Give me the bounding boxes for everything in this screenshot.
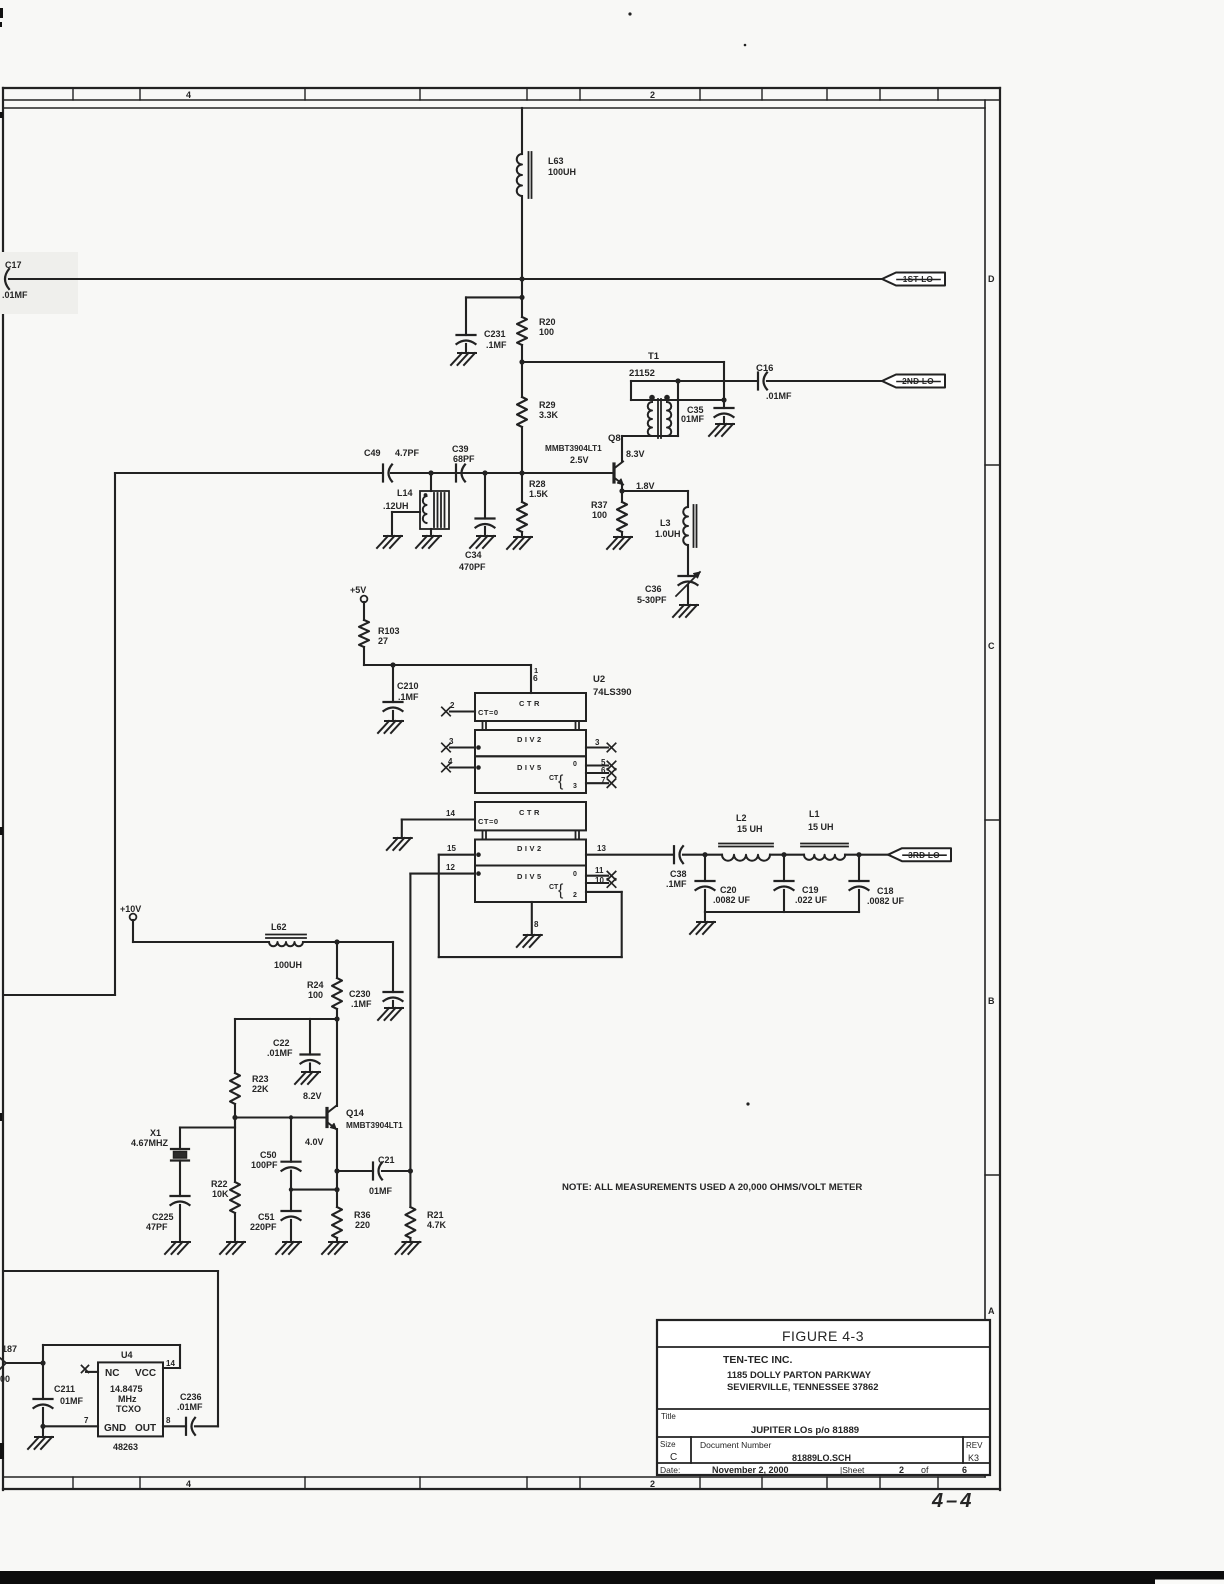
wire L14 to ground [430,529,432,536]
border bottom zone number 4 [186,1479,191,1489]
label C16 [756,363,792,401]
svg-text:C19: C19 [802,885,819,895]
label C21 [369,1155,395,1196]
wire C17 row to R20 [521,279,523,317]
svg-text:C51: C51 [258,1212,275,1222]
junction T1 secondary top [675,378,680,383]
scan speck 1 [628,12,631,15]
label Q8 part [545,444,602,453]
svg-text:K3: K3 [968,1453,979,1463]
wire R23 to base node [234,1104,236,1118]
svg-text:.12UH: .12UH [383,501,409,511]
U2 counter A pin 7 output [586,776,616,787]
svg-text:47PF: 47PF [146,1222,168,1232]
label C39 [452,444,475,464]
U2 counter B pin 9 feedback wire [439,855,622,957]
svg-text:6: 6 [601,766,606,775]
U2 counter B pin 15 clock [439,844,481,857]
wire filter ground bus [705,890,859,912]
svg-text:C210: C210 [397,681,419,691]
svg-text:R36: R36 [354,1210,371,1220]
svg-text:C22: C22 [273,1038,290,1048]
svg-text:100: 100 [592,510,607,520]
U2 counter B CTR box [475,802,586,830]
label R37 [591,500,608,520]
capacitor C21 [373,1163,382,1180]
border right zone letter B [988,996,995,1006]
wire C16 to 2ND LO [767,380,882,382]
wire C231 tap [466,297,522,335]
svg-text:+10V: +10V [120,904,141,914]
svg-text:13: 13 [597,844,606,853]
U2 counter B DIV2 box [475,840,586,866]
svg-text:Size: Size [660,1440,676,1449]
svg-text:.01MF: .01MF [267,1048,293,1058]
border bottom zone ticks [73,1477,938,1489]
label C18 [867,886,905,906]
svg-text:Date:: Date: [660,1465,680,1475]
inductor L1 [784,844,859,860]
svg-text:November 2, 2000: November 2, 2000 [712,1465,789,1475]
svg-text:R22: R22 [211,1179,228,1189]
wire C210 to ground [392,711,394,721]
junction C50 tap [289,1115,293,1119]
wire base row Q14 [235,1116,327,1118]
svg-text:L14: L14 [397,488,413,498]
svg-text:JUPITER LOs p/o 81889: JUPITER LOs p/o 81889 [751,1425,859,1436]
svg-text:L1: L1 [809,809,820,819]
wire C51 node to emitter [291,1189,337,1191]
wire VCC row [364,665,531,693]
svg-text:DIV5: DIV5 [517,872,544,881]
svg-text:C231: C231 [484,329,506,339]
inductor L63 [517,152,532,198]
svg-text:220: 220 [355,1220,370,1230]
off-page connector 3RD LO [888,848,951,861]
svg-text:100: 100 [539,327,554,337]
label C225 [146,1212,174,1232]
svg-text:L62: L62 [271,922,287,932]
wire left loop exit [4,994,115,996]
U2 counter A tabs [483,721,580,730]
label C35 [681,405,705,424]
scan speck 2 [744,44,747,47]
junction 1ST LO row / main column [519,276,524,281]
svg-text:U4: U4 [121,1350,133,1360]
junction C50/C51 node [289,1187,293,1191]
U2 counter A pin 3 output [586,738,616,752]
junction L62/R24 node [334,939,339,944]
svg-text:MMBT3904LT1: MMBT3904LT1 [346,1121,403,1130]
ground U4 [28,1437,53,1449]
svg-text:22K: 22K [252,1084,269,1094]
svg-text:3: 3 [449,737,454,746]
svg-text:.0082 UF: .0082 UF [867,896,905,906]
off-page connector 2ND LO [882,375,945,388]
resistor R29 [517,362,527,427]
title block company [723,1354,792,1366]
svg-text:.1MF: .1MF [398,692,419,702]
wire C51 to ground [290,1220,292,1242]
power +10V [120,904,141,920]
svg-text:Document Number: Document Number [700,1440,772,1450]
junction emitter/C21 node [334,1168,339,1173]
ground R37 [607,537,632,549]
inductor L3 [683,505,696,547]
svg-text:1185 DOLLY PARTON PARKWAY: 1185 DOLLY PARTON PARKWAY [727,1369,872,1380]
transistor Q14 [327,1106,336,1129]
junction T1/C35 node [721,397,726,402]
wire C50 to C51 node [290,1171,292,1190]
wire R29 to base row [521,427,523,473]
resistor R22 [230,1118,240,1214]
wire T1 feed row [522,362,724,400]
svg-text:12: 12 [446,863,455,872]
U2 counter A DIV2 box [475,730,586,756]
label C50 [251,1150,278,1170]
label U4 pin 7 [84,1416,89,1425]
U2 counter A DIV5 box [475,756,586,793]
svg-text:6: 6 [962,1465,967,1475]
label C20 [713,885,751,905]
wire R22 to ground [234,1213,236,1242]
wire C22 to ground [309,1064,311,1073]
U2 counter B pin 11 output [586,866,616,880]
capacitor C22 [301,1019,320,1064]
border right zone ticks [985,465,1000,1175]
label C22 [267,1038,293,1058]
border right zone letter D [988,274,995,284]
label Q14 part [346,1121,403,1130]
junction emitter/C51 row [334,1187,339,1192]
capacitor C34 [476,473,495,528]
wire pin 14 to ground [401,820,403,839]
wire R103 to VCC row [363,647,365,665]
junction C34 tap [482,470,487,475]
crystal X1 [171,1149,189,1161]
bottom scan bar [0,1571,1224,1584]
svg-text:C21: C21 [378,1155,395,1165]
label L63 value [548,156,576,177]
wire L3 to C36 [687,545,689,576]
svg-text:8: 8 [166,1416,171,1425]
svg-text:2: 2 [899,1465,904,1475]
svg-text:R29: R29 [539,400,556,410]
U2 counter A CT bracket [549,761,577,790]
svg-text:4.7PF: 4.7PF [395,448,420,458]
wire C35 to ground [723,417,725,424]
label R29 [539,400,559,420]
wire Q14 emitter column [336,1129,338,1207]
title block row lines [657,1347,990,1463]
wire +5V to R103 [363,602,365,620]
ground C230 [378,1008,403,1020]
svg-text:R21: R21 [427,1210,444,1220]
left edge scan marks [0,8,4,1459]
U2 counter B pin 8 [532,902,539,933]
svg-text:Q14: Q14 [346,1108,365,1119]
label Q8 [608,433,621,444]
IC U4 TCXO box [98,1350,163,1436]
capacitor C236 [186,1418,195,1435]
ground C51 [276,1242,301,1254]
svg-text:1.0UH: 1.0UH [655,529,681,539]
wire Q14 collector [336,1019,338,1106]
capacitor C39 [456,465,465,482]
wire R24 to collector node [336,1009,338,1019]
svg-text:220PF: 220PF [250,1222,277,1232]
ground U2 pin 8 [517,935,542,947]
ground C22 [295,1072,320,1084]
svg-text:C: C [670,1452,677,1463]
label L1 [808,809,834,832]
junction C20 node [702,852,707,857]
off-page connector 1ST LO [882,273,945,286]
svg-text:C211: C211 [54,1384,75,1394]
svg-text:R28: R28 [529,479,546,489]
label R22 [211,1179,229,1199]
svg-text:.01MF: .01MF [2,290,28,300]
title block title text [751,1425,859,1436]
ground C34 [470,536,495,548]
ground R28 [507,537,532,549]
wire VCC loop [43,1345,180,1368]
svg-text:MHz: MHz [118,1394,137,1404]
svg-text:C49: C49 [364,448,381,458]
label R24 [307,980,324,1000]
wire main column top [521,108,523,154]
resistor R103 [359,620,369,647]
transistor Q8 [614,462,623,485]
label T1 part number [629,368,655,379]
wire R28 to ground [521,532,523,537]
resistor R20 [517,317,527,345]
title block date row [660,1465,967,1475]
power +5V [350,585,367,602]
svg-text:1.5K: 1.5K [529,489,549,499]
svg-text:2: 2 [650,1479,655,1489]
junction C211 node [40,1360,45,1365]
capacitor C50 [282,1162,301,1171]
svg-text:MMBT3904LT1: MMBT3904LT1 [545,444,602,453]
svg-text:|Sheet: |Sheet [840,1465,865,1475]
junction collector node [334,1016,339,1021]
svg-text:R103: R103 [378,626,400,636]
capacitor C210 [384,665,403,711]
capacitor C38 [674,846,683,863]
svg-text:X1: X1 [150,1128,161,1138]
inductor L62 [266,935,337,947]
svg-text:15 UH: 15 UH [737,824,763,834]
svg-text:3: 3 [573,783,577,790]
svg-text:Title: Title [661,1412,676,1421]
U2 counter A pin 2 [442,701,475,716]
svg-text:C225: C225 [152,1212,174,1222]
label U4 part 48263 [113,1442,138,1452]
svg-text:4: 4 [186,90,191,100]
wire left loop vertical [114,473,116,995]
junction R20/R29/T1 feed [519,359,524,364]
border right zone letter A [988,1306,995,1316]
svg-text:SEVIERVILLE, TENNESSEE 37862: SEVIERVILLE, TENNESSEE 37862 [727,1381,878,1392]
ground L14 shield [377,536,402,548]
title block size/doc dividers [691,1437,963,1463]
svg-text:CT=0: CT=0 [478,817,499,826]
wire R36 to ground [336,1238,338,1242]
ground pin 14 [387,838,412,850]
svg-text:D: D [988,274,995,284]
svg-text:470PF: 470PF [459,562,486,572]
junction C231 tap [519,295,524,300]
border outer frame [3,88,1000,1490]
svg-text:R37: R37 [591,500,608,510]
svg-text:15 UH: 15 UH [808,822,834,832]
junction L14 tap [428,470,433,475]
label C38 [666,869,687,889]
label R103 [378,626,400,646]
U2 counter B pin 14 [402,809,475,820]
label Q14 [346,1108,365,1119]
ground L14 [416,536,441,548]
svg-text:VCC: VCC [135,1368,156,1379]
svg-text:C20: C20 [720,885,737,895]
svg-text:4: 4 [186,1479,191,1489]
capacitor C19 [775,855,794,890]
svg-text:01MF: 01MF [60,1396,84,1406]
wire emitter to C21 [337,1170,373,1172]
label C236 [177,1392,203,1412]
label C210 [397,681,419,702]
title block Title label [661,1412,676,1421]
svg-text:4: 4 [448,757,453,766]
label R20 [539,317,556,337]
wire C34 to ground [484,527,486,536]
border inner frame [3,100,1000,1477]
svg-text:+5V: +5V [350,585,366,595]
svg-text:C236: C236 [180,1392,202,1402]
title block address [727,1369,878,1392]
U2 counter A pin 4 clock [442,757,481,772]
capacitor C18 [850,855,869,890]
wire +10V to L62 [133,920,269,942]
wire L63 to C17 row [521,196,523,279]
capacitor C225 [171,1196,190,1205]
wire R20 to node [521,345,523,362]
svg-text:U2: U2 [593,674,605,685]
svg-text:14: 14 [166,1359,175,1368]
resistor R21 [405,1171,415,1238]
svg-text:8.2V: 8.2V [303,1091,322,1101]
svg-text:C16: C16 [756,363,773,374]
svg-text:2: 2 [573,892,577,899]
wire X1 to C225 [179,1161,181,1197]
resistor R37 [617,491,627,532]
border right zone letter C [988,641,995,651]
label C36 [637,584,667,605]
svg-text:C17: C17 [5,260,22,270]
title block Document Number [700,1440,851,1463]
inductor L14 (shielded) [420,473,449,529]
svg-text:C34: C34 [465,550,482,560]
wire 2ND LO row left [631,380,758,382]
U2 counter B pin 12 clock [410,863,480,876]
U2 counter B CT bracket [549,871,577,899]
svg-text:10K: 10K [212,1189,229,1199]
label C49 [364,448,420,458]
capacitor C16 [758,373,767,390]
svg-text:DIV2: DIV2 [517,735,544,744]
label X1 [131,1128,169,1148]
svg-text:68PF: 68PF [453,454,475,464]
wire emitter to L3 [622,491,688,507]
label Q14 collector voltage [303,1091,322,1101]
title block frame [657,1320,990,1475]
svg-text:100PF: 100PF [251,1160,278,1170]
svg-text:74LS390: 74LS390 [593,687,632,698]
svg-text:100UH: 100UH [548,167,576,177]
wire C230 to ground [392,1001,394,1008]
U2 counter B pin 13 output [586,844,672,855]
wire U4 pin 7 [43,1425,98,1427]
svg-text:11: 11 [595,866,604,875]
ground R21 [395,1242,420,1254]
wire C38 to filter [683,854,705,856]
wire 1ST LO row [9,278,882,280]
svg-text:CTR: CTR [519,699,542,708]
capacitor C36 (trimmer) [676,572,700,596]
label R23 [252,1074,269,1094]
ground C35 [709,424,734,436]
label emitter voltage 1.8V [636,481,655,491]
border top zone number 2 [650,90,655,100]
svg-text:81889LO.SCH: 81889LO.SCH [792,1453,851,1463]
label C211 [54,1384,84,1406]
svg-text:.1MF: .1MF [351,999,372,1009]
ground C36 [673,605,698,617]
wire R21 to ground [409,1238,411,1242]
svg-text:DIV2: DIV2 [517,844,544,853]
junction C21/R21 node [408,1168,413,1173]
capacitor C49 [115,465,392,482]
svg-text:1.8V: 1.8V [636,481,655,491]
ground C225 [165,1242,190,1254]
wire base row [391,472,614,474]
ground R36 [322,1242,347,1254]
svg-text:L3: L3 [660,518,671,528]
wire ground node down [42,1426,44,1437]
inductor L2 [705,844,784,861]
svg-text:C38: C38 [670,869,687,879]
svg-text:NC: NC [105,1368,119,1379]
svg-text:of: of [921,1465,929,1475]
svg-text:5-30PF: 5-30PF [637,595,667,605]
transformer T1 [622,381,724,438]
U2 counter A CTR box [475,693,586,721]
junction base row / R28 column [519,470,524,475]
label T1 [648,351,660,362]
svg-text:DIV5: DIV5 [517,763,544,772]
svg-text:REV: REV [966,1441,983,1450]
wire C21 to R21 node [382,1170,410,1172]
label R36 [354,1210,371,1230]
label C230 [349,989,372,1009]
wire filter to 3RD LO [859,854,888,856]
junction C19 node [781,852,786,857]
svg-text:48263: 48263 [113,1442,138,1452]
svg-text:L63: L63 [548,156,564,166]
svg-text:21152: 21152 [629,368,655,379]
U2 counter A pin 5 output [586,758,616,770]
